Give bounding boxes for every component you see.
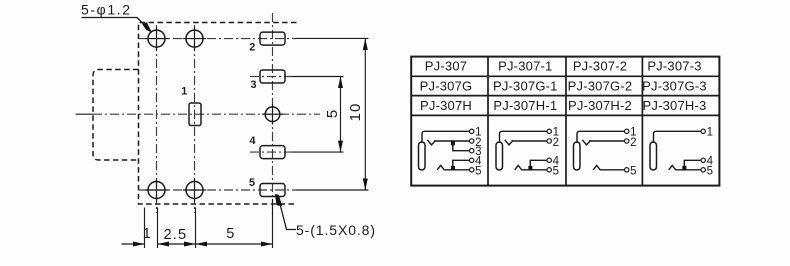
- centerline horizontal bottom row: [139, 189, 296, 191]
- hole top-right: [186, 30, 203, 47]
- pin 5: [547, 168, 551, 172]
- svg-text:2: 2: [249, 42, 255, 54]
- svg-text:PJ-307G: PJ-307G: [420, 78, 473, 93]
- extension line pad4 to dim5: [292, 151, 344, 153]
- table row2 texts: [420, 78, 707, 93]
- pin 1: [547, 129, 551, 133]
- svg-text:3: 3: [250, 79, 256, 91]
- pin 3: [470, 149, 474, 153]
- schematic cell 1 PJ-307: [419, 127, 483, 178]
- pad 1: [189, 103, 201, 126]
- table row1 texts: [425, 58, 702, 73]
- arrow right at ext d: [261, 242, 273, 247]
- svg-text:5: 5: [707, 165, 713, 177]
- junction dot pins4-5: [528, 166, 532, 171]
- pad 2: [260, 32, 285, 45]
- jack barrel J1: [419, 142, 426, 170]
- pad 4: [260, 146, 285, 159]
- wire pin1: [422, 131, 469, 143]
- pad 5: [260, 184, 285, 197]
- wire pin3: [453, 141, 469, 151]
- wire pin4: [453, 160, 469, 170]
- svg-text:PJ-307H: PJ-307H: [420, 98, 472, 113]
- centerline horizontal middle: [93, 113, 320, 115]
- svg-text:PJ-307-2: PJ-307-2: [573, 58, 627, 73]
- hole top-left: [148, 30, 165, 47]
- svg-text:PJ-307H-3: PJ-307H-3: [643, 98, 707, 113]
- tip contact wire pin2: [427, 140, 469, 145]
- svg-text:PJ-307-1: PJ-307-1: [498, 58, 552, 73]
- extension line pad2 to dim10: [296, 37, 369, 39]
- tip contact wire pin2: [505, 140, 547, 145]
- bottom dimension line: [122, 243, 273, 245]
- junction dot pins2-3: [451, 141, 455, 146]
- tip contact wire pin2: [582, 140, 624, 145]
- extension line a (body edge): [144, 208, 146, 249]
- body outline dashed: [139, 23, 297, 205]
- pin 5: [625, 168, 629, 172]
- extension line d (pad col): [272, 199, 274, 248]
- svg-text:2.5: 2.5: [164, 227, 188, 243]
- jack barrel J3: [574, 142, 581, 170]
- pin 1: [470, 129, 474, 133]
- jack barrel J2: [496, 142, 503, 170]
- centerline vertical hole column 1: [156, 25, 158, 213]
- pin 2: [547, 139, 551, 143]
- pin 4: [547, 158, 551, 162]
- schematic cell 3 PJ-307-2: [574, 127, 637, 178]
- arrow right at ext a: [133, 242, 145, 247]
- centerline pad3: [250, 76, 292, 78]
- svg-text:PJ-307: PJ-307: [425, 58, 467, 73]
- svg-text:PJ-307-3: PJ-307-3: [647, 58, 701, 73]
- svg-text:5-φ1.2: 5-φ1.2: [81, 2, 132, 18]
- svg-text:2: 2: [630, 137, 636, 149]
- pin 4: [470, 158, 474, 162]
- pin 2: [470, 139, 474, 143]
- leader arrowhead to pad5: [275, 194, 282, 206]
- wire pin1: [654, 131, 701, 143]
- svg-text:4: 4: [249, 135, 255, 147]
- extension line b (hole col1): [157, 208, 159, 249]
- svg-text:5-(1.5X0.8): 5-(1.5X0.8): [296, 222, 376, 238]
- jack barrel J4: [650, 142, 657, 170]
- arrow left at ext b: [158, 242, 170, 247]
- centerline vertical hole column 2: [194, 25, 196, 213]
- wire pin1: [577, 131, 624, 143]
- centerline vertical pad column: [272, 13, 274, 215]
- extension line c (hole col2): [195, 208, 197, 249]
- svg-text:1: 1: [707, 127, 713, 139]
- pin 1: [701, 129, 705, 133]
- svg-text:2: 2: [553, 137, 559, 149]
- pin 1: [625, 129, 629, 133]
- centerline horizontal top row: [139, 38, 296, 40]
- ring contact wire pin5: [669, 165, 701, 169]
- junction dot pins4-5: [451, 166, 455, 171]
- label 5-phi1.2: [81, 2, 132, 18]
- svg-text:PJ-307G-1: PJ-307G-1: [493, 78, 558, 93]
- svg-text:PJ-307G-2: PJ-307G-2: [568, 78, 633, 93]
- wire pin4: [530, 160, 546, 170]
- dimension line 10 vertical: [364, 39, 366, 191]
- centerline pad4: [250, 151, 292, 153]
- svg-text:5: 5: [553, 165, 559, 177]
- svg-text:PJ-307G-3: PJ-307G-3: [642, 78, 707, 93]
- ring contact wire pin5: [593, 165, 624, 169]
- pin 2: [625, 139, 629, 143]
- extension line pad3 to dim5: [292, 76, 344, 78]
- pin 5: [470, 168, 474, 172]
- leader line for 5-phi1.2: [82, 18, 151, 32]
- ring contact wire pin5: [515, 165, 547, 169]
- hole middle: [265, 107, 280, 122]
- pad 3: [260, 70, 285, 83]
- extension line pad5 to dim10: [296, 189, 369, 191]
- svg-text:10: 10: [347, 103, 364, 122]
- wire pin4: [684, 160, 700, 170]
- junction dot pins4-5: [682, 166, 686, 171]
- svg-text:5: 5: [226, 226, 234, 242]
- dimension line 5 vertical: [340, 77, 342, 153]
- pin 4: [701, 158, 705, 162]
- svg-text:1: 1: [143, 226, 151, 242]
- svg-text:5: 5: [630, 165, 636, 177]
- leader arrowhead to hole: [142, 22, 152, 33]
- svg-text:PJ-307H-1: PJ-307H-1: [493, 98, 557, 113]
- arrows at ext c: [184, 242, 196, 247]
- svg-text:1: 1: [181, 86, 187, 98]
- svg-text:5: 5: [475, 165, 481, 177]
- svg-text:PJ-307H-2: PJ-307H-2: [568, 98, 632, 113]
- leader for 5-(1.5X0.8): [281, 206, 297, 230]
- wire pin1: [500, 131, 547, 143]
- table row3 texts: [420, 98, 706, 113]
- hole bottom-left: [148, 182, 165, 199]
- hole bottom-right: [186, 182, 203, 199]
- pin 5: [701, 168, 705, 172]
- schematic cell 4 PJ-307-3: [650, 127, 714, 178]
- svg-text:5: 5: [249, 177, 255, 189]
- ring contact wire pin5: [437, 165, 469, 169]
- svg-text:5: 5: [324, 110, 341, 118]
- table grid: [411, 57, 719, 186]
- schematic cell 2 PJ-307-1: [496, 127, 560, 178]
- barrel outline dashed: [93, 70, 139, 161]
